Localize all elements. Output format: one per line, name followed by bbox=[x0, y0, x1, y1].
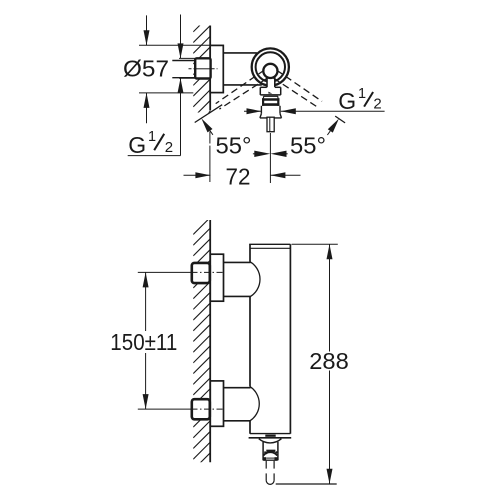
thread adapter tip bbox=[267, 117, 274, 132]
threaded ring (black band) bbox=[262, 98, 279, 106]
dimension 288 bbox=[292, 243, 338, 245]
lever ball detail bbox=[268, 92, 272, 94]
mixer body horizontal cylinder (top view) bbox=[223, 52, 257, 54]
valve outer circle bbox=[252, 48, 289, 85]
aerator dome bbox=[263, 452, 277, 455]
wall line (bottom view) bbox=[209, 220, 211, 462]
mixer body cylinder (bottom view) bbox=[249, 244, 290, 433]
55° vertex arrows bbox=[253, 153, 258, 155]
dimension G1/2 right bbox=[244, 110, 262, 112]
svg-text:2: 2 bbox=[373, 96, 381, 113]
bottom cap dark slot bbox=[265, 435, 275, 437]
upper escutcheon flange (bottom view) bbox=[210, 254, 223, 301]
dimension 150±11 bbox=[145, 272, 147, 331]
centerline lower union bbox=[138, 408, 192, 410]
outlet centerline (vertical) bbox=[269, 133, 271, 183]
svg-text:2: 2 bbox=[165, 139, 173, 156]
outlet body block (top view) bbox=[260, 87, 280, 95]
aerator assembly bbox=[266, 450, 275, 452]
svg-text:G: G bbox=[128, 132, 146, 158]
wall extension line for 72 bbox=[209, 132, 211, 144]
upper union nut (bottom view) bbox=[192, 263, 210, 283]
dimension Ø57 bbox=[139, 15, 210, 123]
svg-text:150±11: 150±11 bbox=[110, 329, 177, 355]
knob circle bbox=[263, 64, 277, 78]
55° arc arrow left bbox=[201, 118, 212, 132]
svg-text:G: G bbox=[338, 88, 356, 114]
centerline upper union bbox=[138, 271, 192, 273]
dimension 72 bbox=[184, 174, 211, 176]
wall hatching (bottom view) bbox=[193, 217, 210, 480]
oblique extension segment left bbox=[195, 105, 223, 123]
outlet bell dome bbox=[259, 439, 282, 443]
upper boss arc bbox=[250, 262, 260, 297]
supply pipe stub G1/2 (top view) bbox=[172, 58, 195, 78]
svg-text:55°: 55° bbox=[216, 133, 252, 159]
pipe centerline dash-dot (top view) bbox=[189, 68, 197, 70]
lower union pipe bbox=[224, 387, 251, 389]
lower escutcheon flange (bottom view) bbox=[210, 381, 223, 426]
aerator rim bbox=[266, 457, 274, 459]
svg-text:72: 72 bbox=[226, 163, 251, 189]
escutcheon flange (top view) bbox=[210, 45, 223, 92]
wall hatching (top view) bbox=[193, 15, 210, 129]
outlet tube (broken view) bbox=[266, 461, 274, 485]
nut hex facet line (top view) bbox=[196, 68, 210, 70]
outlet neck bbox=[262, 442, 264, 461]
lower boss arc bbox=[250, 387, 259, 421]
lower union nut (bottom view) bbox=[192, 399, 210, 419]
swivel range dashed line right (55°) bbox=[274, 70, 322, 107]
svg-text:1: 1 bbox=[148, 129, 156, 145]
dimension G1/2 left bbox=[128, 15, 181, 156]
svg-text:1: 1 bbox=[358, 86, 366, 102]
union nut (top view) bbox=[195, 58, 210, 78]
body bottom cap bbox=[250, 433, 290, 435]
outlet pipe G1/2 (top view) bbox=[260, 106, 282, 118]
collar under outlet body bbox=[263, 95, 278, 97]
upper union pipe bbox=[224, 261, 251, 263]
handle stem (front) bbox=[267, 74, 275, 93]
valve middle ring circle bbox=[256, 52, 285, 81]
55° arc arrow right bbox=[328, 119, 339, 133]
oblique extension segment right bbox=[335, 116, 345, 123]
svg-text:Ø57: Ø57 bbox=[123, 56, 169, 82]
svg-text:288: 288 bbox=[309, 348, 349, 374]
wall line (top view) bbox=[209, 26, 211, 111]
svg-text:55°: 55° bbox=[290, 133, 326, 159]
swivel range dashed line left (55°) bbox=[216, 70, 268, 109]
